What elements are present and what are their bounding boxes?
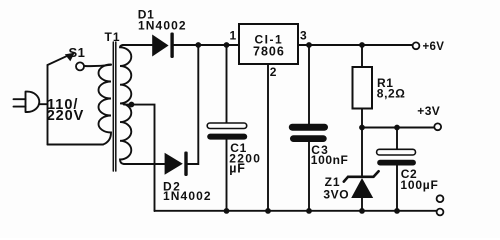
wire C3 riser bottom bbox=[308, 142, 310, 211]
wire D1 cathode to box pin 1 bbox=[174, 44, 239, 46]
capacitor C1 plates bbox=[207, 123, 247, 140]
node bottom pin2 bbox=[265, 208, 271, 214]
transformer T1 primary bbox=[99, 65, 112, 145]
wire R1 bottom bbox=[361, 109, 363, 128]
wire +3V rail bbox=[362, 127, 434, 129]
terminal 0V upper bbox=[437, 195, 444, 202]
node bottom C2 bbox=[394, 208, 400, 214]
wire Z1 riser bottom bbox=[361, 198, 363, 211]
svg-text:T1: T1 bbox=[105, 30, 121, 44]
svg-text:1N4002: 1N4002 bbox=[138, 18, 187, 32]
wire R1 top bbox=[361, 45, 363, 67]
diode D1 bbox=[152, 33, 174, 59]
wire secondary bottom to D2 bbox=[124, 163, 165, 165]
switch S1 contact bbox=[76, 62, 84, 70]
node C3 top bbox=[306, 42, 312, 48]
wire bottom rail bbox=[155, 210, 437, 212]
svg-text:8,2Ω: 8,2Ω bbox=[377, 87, 406, 101]
svg-text:µF: µF bbox=[229, 161, 245, 175]
wire pin 3 rail to +6V bbox=[298, 44, 413, 46]
wire Z1 riser top bbox=[361, 128, 363, 177]
svg-text:220V: 220V bbox=[47, 108, 84, 124]
wire C2 riser bottom bbox=[396, 166, 398, 212]
IC CI-1 7806 box bbox=[239, 24, 298, 64]
terminal +6V bbox=[413, 42, 420, 49]
node bottom C3 bbox=[306, 208, 312, 214]
wire C1 riser bottom bbox=[226, 140, 228, 212]
wire top rail left bbox=[123, 44, 152, 46]
svg-text:3VO: 3VO bbox=[323, 188, 349, 202]
node bottom Z1 bbox=[359, 208, 365, 214]
node R1 top bbox=[359, 42, 365, 48]
capacitor C2 plates bbox=[377, 149, 416, 165]
node bottom C1 bbox=[224, 208, 230, 214]
svg-text:1: 1 bbox=[230, 28, 237, 42]
svg-text:+6V: +6V bbox=[423, 41, 445, 53]
svg-text:100µF: 100µF bbox=[400, 178, 438, 192]
resistor R1 body bbox=[353, 67, 373, 109]
svg-text:3: 3 bbox=[300, 28, 307, 42]
diode D2 bbox=[165, 152, 188, 177]
node center tap bbox=[129, 102, 135, 108]
wire center tap bbox=[124, 105, 155, 211]
svg-text:+3V: +3V bbox=[417, 104, 440, 118]
node C1 top bbox=[224, 42, 230, 48]
wire left vertical bbox=[47, 65, 49, 145]
switch S1 lever bbox=[48, 55, 70, 65]
wire D2 cathode riser bbox=[188, 45, 199, 164]
transformer T1 core bbox=[113, 42, 116, 171]
plug P1 prongs bbox=[14, 99, 26, 106]
wire C3 riser top bbox=[308, 45, 310, 124]
svg-text:1N4002: 1N4002 bbox=[163, 189, 212, 203]
wire switch to T1 bbox=[84, 65, 111, 66]
capacitor C3 plates bbox=[289, 124, 328, 142]
terminal +3V bbox=[434, 123, 441, 130]
svg-text:100nF: 100nF bbox=[311, 153, 349, 167]
terminal 0V lower bbox=[437, 209, 444, 216]
plug P1 body bbox=[26, 92, 48, 112]
node +3V C2 bbox=[394, 125, 400, 131]
transformer T1 secondary bbox=[120, 45, 131, 164]
svg-text:7806: 7806 bbox=[253, 44, 285, 58]
svg-text:2: 2 bbox=[270, 65, 277, 79]
zener diode Z1 bbox=[344, 171, 379, 198]
wire C2 riser top bbox=[396, 128, 398, 150]
wire C1 riser top bbox=[226, 45, 228, 123]
switch S1 arrowhead bbox=[65, 53, 75, 62]
wire pin 2 riser bbox=[267, 64, 269, 211]
svg-text:S1: S1 bbox=[69, 45, 86, 60]
node +3V left bbox=[359, 125, 365, 131]
wire bottom primary bbox=[48, 144, 104, 146]
node D2 top bbox=[195, 42, 201, 48]
